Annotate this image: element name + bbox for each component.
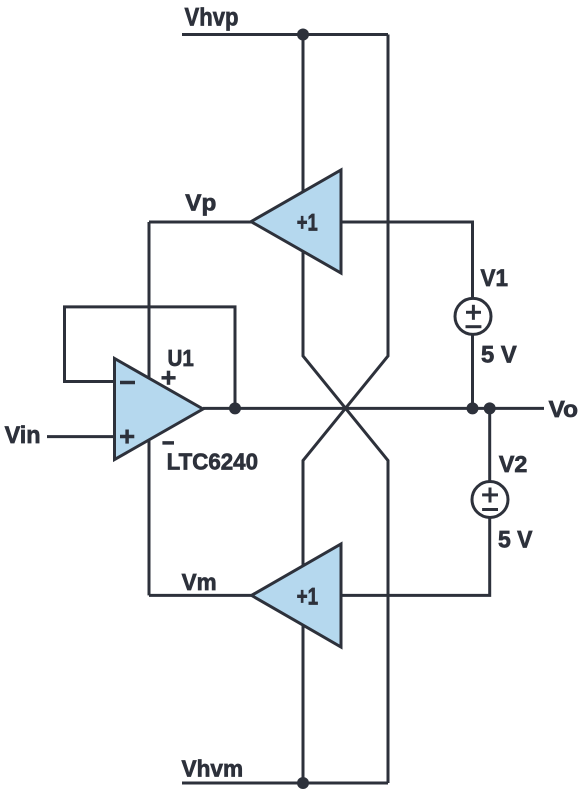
wire top buffer output to V1 xyxy=(341,222,473,408)
wire Vhvm rail xyxy=(182,782,388,785)
wire Vin input xyxy=(47,435,115,438)
op-amp U1 minus marker outside bottom xyxy=(162,441,174,445)
voltage source V2 xyxy=(472,482,508,518)
wire from Vhvp dot crossing down to lower-right xyxy=(303,35,388,784)
node Vhvp junction xyxy=(297,29,309,41)
node feedback junction on output xyxy=(229,402,241,414)
svg-text:LTC6240: LTC6240 xyxy=(167,449,258,475)
node Vhvm junction xyxy=(297,777,309,789)
node V2 junction on output xyxy=(484,402,496,414)
wire feedback loop to inverting input xyxy=(65,307,236,409)
svg-text:V2: V2 xyxy=(499,451,528,477)
node V1 junction on output xyxy=(467,402,479,414)
op-amp U1 triangle xyxy=(115,359,204,460)
svg-text:U1: U1 xyxy=(168,345,194,371)
svg-text:5 V: 5 V xyxy=(481,342,517,369)
op-amp U1 plus marker outside top xyxy=(162,371,176,385)
wire output Vo line xyxy=(203,407,544,410)
wire bottom buffer output to V2 xyxy=(341,408,490,595)
svg-text:V1: V1 xyxy=(481,265,509,292)
wire Vp-Vm left vertical xyxy=(148,222,151,595)
wire from Vhvp right end crossing down to lower-left xyxy=(303,35,388,784)
svg-text:Vhvp: Vhvp xyxy=(185,3,239,31)
svg-text:5 V: 5 V xyxy=(498,526,533,553)
op-amp U1 non-inverting input plus sign xyxy=(120,430,134,444)
wire Vhvp rail xyxy=(182,33,388,36)
voltage source V1 xyxy=(455,298,491,334)
buffer amp bottom +1 xyxy=(252,544,342,647)
op-amp U1 inverting input minus sign xyxy=(120,381,135,385)
svg-text:+1: +1 xyxy=(297,209,318,236)
svg-text:Vo: Vo xyxy=(549,396,578,422)
wire Vp to top buffer input xyxy=(149,221,251,224)
wire Vm to bottom buffer input xyxy=(149,594,252,597)
svg-text:Vhvm: Vhvm xyxy=(182,756,244,782)
svg-text:Vin: Vin xyxy=(5,422,41,449)
svg-text:+1: +1 xyxy=(297,583,319,610)
svg-text:Vm: Vm xyxy=(182,569,217,595)
buffer amp top +1 xyxy=(251,170,341,273)
svg-text:Vp: Vp xyxy=(185,189,216,215)
